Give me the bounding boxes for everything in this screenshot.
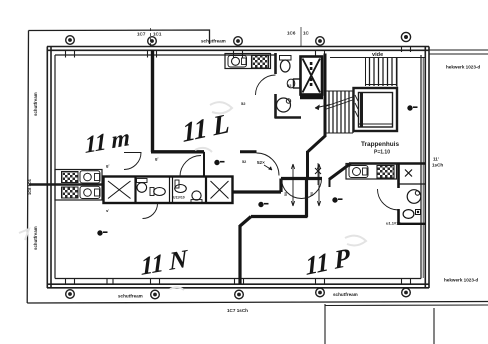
toilet bbox=[403, 210, 414, 219]
perimeter wall double lines bbox=[47, 46, 429, 48]
svg-text:52×: 52× bbox=[257, 160, 265, 165]
svg-text:1sCh: 1sCh bbox=[432, 163, 443, 168]
svg-text:vide: vide bbox=[372, 52, 383, 58]
X mark bbox=[405, 170, 412, 177]
wall 11m | 11L bbox=[151, 50, 154, 152]
svg-text:schutfream: schutfream bbox=[333, 292, 358, 297]
svg-text:g': g' bbox=[106, 163, 109, 168]
svg-text:52: 52 bbox=[242, 160, 246, 164]
wall 11L bottom, right part bbox=[240, 150, 257, 153]
svg-text:52: 52 bbox=[241, 101, 246, 106]
stove checker bbox=[252, 56, 269, 69]
box3 sink + toilet bbox=[175, 185, 187, 193]
door leaf hall bbox=[203, 152, 205, 177]
svg-text:50: 50 bbox=[284, 192, 288, 196]
hall double swing to 11P bbox=[282, 179, 322, 199]
svg-text:schutfream: schutfream bbox=[201, 39, 226, 44]
svg-text:g': g' bbox=[155, 156, 158, 161]
upper flight bars bbox=[365, 58, 367, 86]
direction arrow bbox=[315, 105, 330, 109]
columns along top & bottom walls bbox=[66, 32, 411, 298]
svg-text:P=1.10: P=1.10 bbox=[374, 150, 390, 156]
stairwell west wall bbox=[324, 54, 327, 138]
svg-text:U11#10: U11#10 bbox=[173, 196, 185, 200]
hekwerk double line top right bbox=[429, 49, 488, 51]
party wall through kitchen extending to site boundary bbox=[29, 183, 103, 186]
extra wall ticks bottom bbox=[107, 279, 113, 285]
box4 X bbox=[211, 181, 229, 199]
stoves (checker) bbox=[62, 172, 79, 183]
svg-text:1C6: 1C6 bbox=[287, 31, 296, 36]
interior partition walls (thick) bbox=[151, 50, 425, 284]
box1 X bbox=[108, 181, 131, 199]
11L hall door bbox=[257, 153, 280, 176]
svg-text:hekwerk 1023-d: hekwerk 1023-d bbox=[444, 278, 478, 283]
svg-text:schutfream: schutfream bbox=[33, 226, 38, 250]
sink bbox=[228, 56, 247, 68]
svg-text:1C1: 1C1 bbox=[153, 32, 162, 37]
hall / 11N walls bbox=[233, 190, 281, 193]
bathroom strip door down to 11N bbox=[143, 204, 158, 219]
toilet bbox=[280, 56, 292, 61]
inner face thin lines bbox=[55, 54, 275, 56]
dashed column axis lines at top bbox=[151, 27, 302, 47]
svg-text:1C7 1sCh: 1C7 1sCh bbox=[227, 308, 248, 313]
svg-text:52: 52 bbox=[287, 83, 292, 88]
wall stub below elevator bbox=[300, 95, 323, 100]
round basin bbox=[277, 98, 291, 112]
svg-text:50: 50 bbox=[310, 192, 314, 196]
basin bbox=[407, 190, 421, 204]
door arc bbox=[378, 189, 399, 210]
faint scan smudges bbox=[19, 102, 366, 290]
outer site boundary (sketchy) bbox=[29, 30, 210, 44]
lower flight treads bbox=[326, 90, 353, 92]
sinks bbox=[80, 171, 100, 183]
small sink bbox=[294, 79, 301, 88]
svg-text:schutfream: schutfream bbox=[33, 92, 38, 116]
svg-text:1C: 1C bbox=[303, 31, 310, 36]
box2 toilet + sink bbox=[137, 179, 148, 183]
core box bbox=[354, 88, 398, 131]
wall 11L bottom, left part bbox=[151, 150, 204, 153]
svg-text:Trappenhuis: Trappenhuis bbox=[361, 141, 399, 148]
11P north boundary bbox=[329, 164, 351, 180]
svg-text:u1.1#10: u1.1#10 bbox=[386, 221, 401, 226]
door arc bbox=[256, 75, 276, 95]
svg-text:1C7: 1C7 bbox=[137, 32, 146, 37]
svg-text:schutfream: schutfream bbox=[118, 294, 143, 299]
svg-text:hekwerk 1023-d: hekwerk 1023-d bbox=[446, 65, 480, 70]
bathroom strip door to hall (up) bbox=[180, 156, 201, 177]
counter bbox=[225, 54, 271, 69]
svg-text:11': 11' bbox=[433, 157, 439, 162]
cut line bbox=[325, 100, 354, 110]
svg-text:1C8 1C6: 1C8 1C6 bbox=[27, 178, 32, 195]
svg-text:s': s' bbox=[106, 208, 109, 213]
11m door bbox=[124, 153, 141, 170]
